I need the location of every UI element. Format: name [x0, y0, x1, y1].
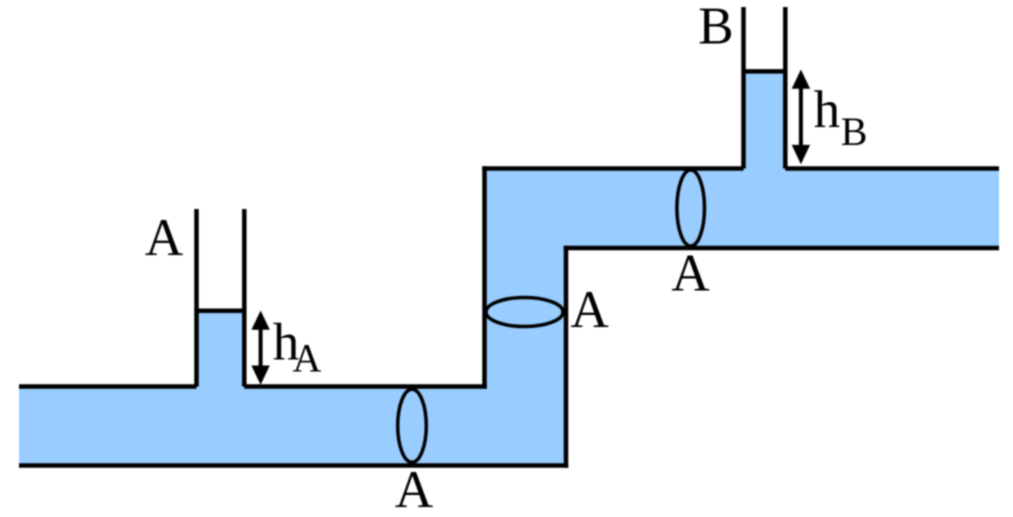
upper pipe top wall left segment [482, 166, 743, 171]
lower pipe top wall right segment [244, 384, 486, 389]
svg-text:A: A [571, 281, 609, 339]
piezometer B water surface line [744, 69, 786, 74]
riser right wall [564, 246, 569, 468]
h_B dimension arrow [792, 70, 810, 165]
cross-section ellipse in lower pipe [398, 389, 427, 462]
piezometer A water surface line [197, 308, 245, 313]
riser pipe water fill [485, 169, 567, 466]
svg-text:A: A [395, 461, 433, 517]
piezometer B left wall [741, 7, 746, 169]
piezometer A right wall [242, 209, 247, 387]
lower pipe water fill [19, 387, 566, 466]
lower pipe top wall left segment [19, 384, 197, 389]
piezometer A left wall [194, 209, 199, 387]
lower pipe bottom wall [19, 463, 568, 468]
svg-text:A: A [145, 209, 183, 267]
h_A dimension arrow [251, 311, 269, 385]
cross-section ellipse in upper pipe [677, 170, 705, 246]
piezometer A water column fill [197, 311, 245, 389]
riser left wall [482, 166, 487, 388]
svg-text:h: h [814, 81, 841, 139]
upper pipe top wall right segment [785, 166, 999, 171]
svg-text:B: B [841, 109, 868, 154]
upper pipe water fill [485, 169, 1000, 248]
upper pipe bottom wall [564, 246, 999, 251]
cross-section ellipse in riser pipe [486, 298, 563, 327]
svg-text:A: A [293, 336, 322, 381]
piezometer B water column fill [744, 71, 786, 170]
svg-text:B: B [698, 0, 733, 55]
svg-text:A: A [671, 245, 709, 303]
piezometer B right wall [783, 7, 788, 169]
